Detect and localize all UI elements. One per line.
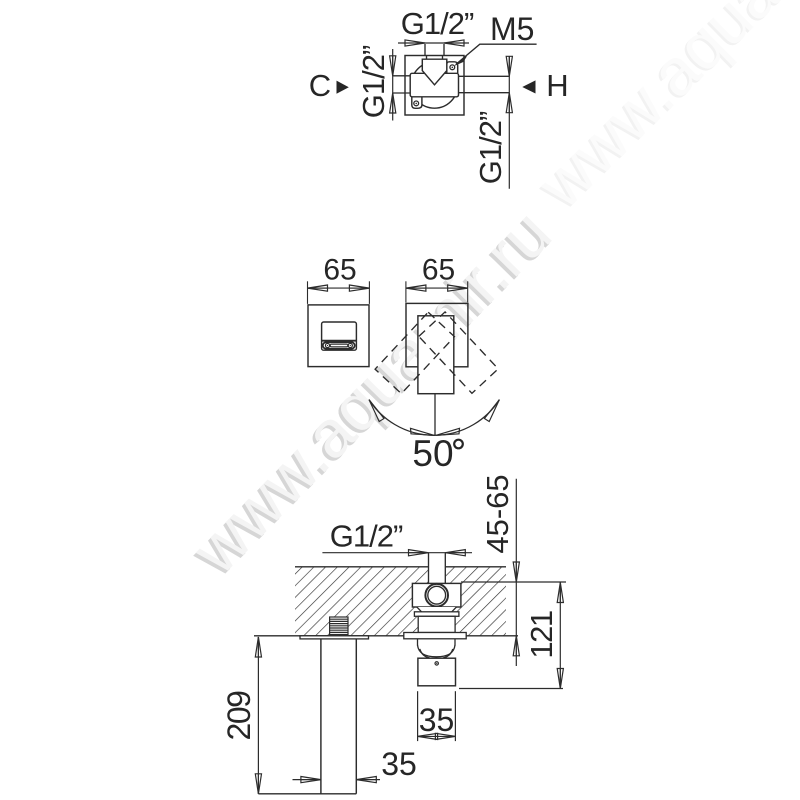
svg-text:G1/2”: G1/2” xyxy=(356,45,391,118)
cartridge circle xyxy=(425,584,448,607)
swing arc xyxy=(369,400,499,436)
dashed swing position left xyxy=(375,312,454,393)
svg-text:35: 35 xyxy=(419,702,455,738)
spout tube xyxy=(258,639,356,794)
outlet set screw xyxy=(435,662,438,665)
svg-text:209: 209 xyxy=(221,691,257,741)
dimension 121 xyxy=(459,582,563,689)
arc center arrow right xyxy=(436,428,460,435)
svg-text:G1/2”: G1/2” xyxy=(473,111,508,184)
dimension 35 spout xyxy=(293,746,417,783)
svg-text:35: 35 xyxy=(381,746,417,782)
handle recess xyxy=(322,322,357,350)
dashed swing position right xyxy=(419,312,498,393)
cartridge body rect xyxy=(410,73,458,97)
svg-text:50: 50 xyxy=(412,433,453,474)
label 50deg xyxy=(412,433,462,474)
svg-text:65: 65 xyxy=(422,254,455,287)
watermark main row xyxy=(175,195,566,591)
svg-text:M5: M5 xyxy=(490,11,534,47)
svg-text:C: C xyxy=(309,68,331,103)
handle center line xyxy=(434,394,436,436)
dimension G1/2 top xyxy=(398,6,474,46)
spout outlet bowl xyxy=(418,639,456,659)
escutcheon circle xyxy=(411,62,457,108)
dimension 209 xyxy=(221,637,262,794)
flange bar xyxy=(414,612,459,617)
M5 screw (NE) xyxy=(450,65,455,70)
right pipe stubs xyxy=(459,76,510,92)
dimension 35 outlet xyxy=(418,691,456,741)
spout flange at wall xyxy=(300,636,369,639)
dimension 65 right xyxy=(406,254,468,303)
lever bar xyxy=(330,344,348,347)
dimension G1/2 left vertical xyxy=(356,45,396,120)
dimension G1/2 bottom xyxy=(322,519,472,556)
left pipe stubs xyxy=(393,76,411,93)
dimension 45-65 xyxy=(461,474,566,666)
transition trapezoid xyxy=(417,607,457,612)
lever slot stadium xyxy=(323,342,355,348)
valve body in wall xyxy=(412,583,461,607)
side plate square xyxy=(406,303,468,366)
wall surface line xyxy=(254,635,518,637)
NE screw tab xyxy=(447,62,458,73)
SW screw xyxy=(414,101,419,106)
front plate square xyxy=(308,305,369,367)
watermark www.aquamir.ru (tiled faint rows) xyxy=(521,0,800,224)
recess split line xyxy=(322,340,357,342)
handle (side) xyxy=(418,316,454,394)
dimension 65 left xyxy=(308,254,370,304)
arc end arrow left xyxy=(369,400,384,422)
outer square plate (top view) xyxy=(405,56,464,116)
wall hatch xyxy=(295,567,506,636)
lever end circles xyxy=(325,343,329,347)
label H with arrow xyxy=(522,68,568,103)
valve escutcheon xyxy=(404,633,466,639)
valve pentagon with V notch xyxy=(422,59,447,85)
top inlet pipe stub xyxy=(425,44,444,59)
label M5 with leader xyxy=(455,11,537,65)
SW screw tab xyxy=(412,97,422,109)
supply pipe in wall xyxy=(429,553,446,584)
lever end dots xyxy=(327,345,328,346)
arc end arrow right xyxy=(484,400,499,422)
svg-text:121: 121 xyxy=(524,611,559,658)
threaded tail of spout xyxy=(330,617,348,635)
label C with arrow xyxy=(309,68,349,103)
valve neck xyxy=(418,616,455,632)
dimension G1/2 right vertical xyxy=(473,56,512,189)
svg-text:45-65: 45-65 xyxy=(480,474,515,553)
arc center arrow left xyxy=(411,428,435,435)
outlet body xyxy=(418,658,456,686)
svg-text:G1/2”: G1/2” xyxy=(401,6,474,41)
svg-text:65: 65 xyxy=(323,254,356,287)
svg-text:G1/2”: G1/2” xyxy=(330,519,403,554)
svg-text:H: H xyxy=(546,68,568,103)
